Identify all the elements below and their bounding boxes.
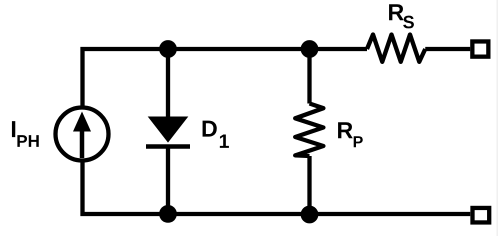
node D junction dot (bottom, Rp branch)	[301, 206, 319, 224]
wire: left branch from current source down to bottom bus	[83, 161, 169, 215]
node B junction dot (top, Rp branch)	[301, 40, 319, 58]
label RP	[336, 117, 363, 151]
svg-text:D: D	[201, 116, 218, 142]
wire: top-left corner (left branch up to top bus)	[83, 49, 169, 107]
wire: top bus between node A and node B	[168, 47, 310, 51]
svg-text:S: S	[403, 12, 415, 32]
diode D1 symbol	[146, 117, 190, 147]
svg-text:PH: PH	[16, 132, 40, 151]
label RS	[387, 0, 414, 32]
svg-text:P: P	[353, 134, 364, 151]
label D1	[201, 116, 230, 153]
label IPH	[10, 116, 40, 151]
wire: Rp branch bottom stub	[307, 156, 311, 214]
resistor RP zigzag	[295, 104, 323, 157]
node A junction dot (top, diode branch)	[159, 40, 177, 58]
wire: diode branch bottom	[166, 147, 170, 215]
svg-text:1: 1	[219, 131, 230, 153]
terminal: bottom-right output square	[473, 208, 490, 223]
current source IPH circle	[56, 108, 109, 161]
wire: bottom bus from node D to bottom terminal	[310, 212, 471, 216]
wire: bottom bus between node C and node D	[168, 212, 310, 216]
wire: top bus from node B to Rs	[310, 47, 368, 51]
svg-text:R: R	[336, 117, 353, 143]
wire: Rs to top terminal	[425, 47, 470, 51]
wire: Rp branch top stub	[307, 49, 311, 104]
terminal: top-right output square	[472, 41, 488, 56]
current source arrow	[73, 112, 91, 159]
resistor RS zigzag	[367, 35, 425, 62]
node C junction dot (bottom, diode branch)	[159, 205, 177, 223]
faint page border line right	[497, 0, 498, 236]
wire: diode branch top	[166, 49, 170, 117]
